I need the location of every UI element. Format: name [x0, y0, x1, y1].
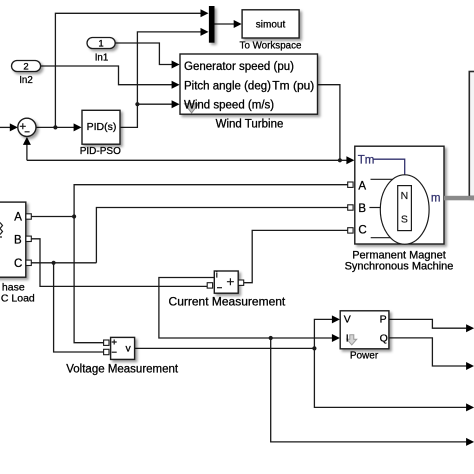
svg-text:B: B: [14, 234, 22, 246]
svg-text:C Load: C Load: [1, 292, 35, 304]
svg-text:A: A: [14, 211, 22, 223]
svg-text:Power: Power: [350, 351, 379, 362]
svg-text:Q: Q: [380, 332, 388, 344]
svg-text:Tm (pu): Tm (pu): [272, 79, 314, 93]
svg-text:Voltage Measurement: Voltage Measurement: [66, 364, 179, 376]
svg-text:i: i: [216, 270, 218, 280]
svg-text:Pitch angle (deg): Pitch angle (deg): [184, 81, 271, 93]
svg-text:I: I: [346, 333, 349, 345]
svg-text:In2: In2: [19, 75, 33, 86]
svg-text:1: 1: [98, 39, 103, 50]
svg-text:PID(s): PID(s): [87, 121, 117, 133]
svg-text:PID-PSO: PID-PSO: [80, 146, 121, 157]
svg-text:Tm: Tm: [358, 155, 375, 167]
svg-text:C: C: [358, 225, 366, 237]
svg-text:Synchronous Machine: Synchronous Machine: [345, 261, 454, 273]
svg-text:Wind Turbine: Wind Turbine: [216, 118, 284, 130]
svg-text:v: v: [126, 343, 132, 355]
svg-text:Generator speed (pu): Generator speed (pu): [184, 61, 294, 73]
svg-text:N: N: [401, 190, 409, 202]
svg-text:Permanent Magnet: Permanent Magnet: [352, 249, 446, 261]
svg-text:A: A: [358, 180, 366, 192]
svg-text:Wind speed (m/s): Wind speed (m/s): [184, 99, 274, 111]
svg-text:To Workspace: To Workspace: [240, 40, 302, 51]
svg-text:Current Measurement: Current Measurement: [169, 295, 286, 309]
svg-text:B: B: [358, 203, 366, 215]
svg-text:P: P: [380, 314, 387, 326]
svg-text:simout: simout: [256, 19, 286, 30]
svg-text:C: C: [14, 258, 22, 270]
svg-text:m: m: [431, 193, 441, 205]
svg-text:2: 2: [23, 61, 28, 72]
svg-text:In1: In1: [95, 53, 109, 64]
svg-text:V: V: [344, 314, 351, 326]
svg-text:S: S: [401, 213, 408, 225]
